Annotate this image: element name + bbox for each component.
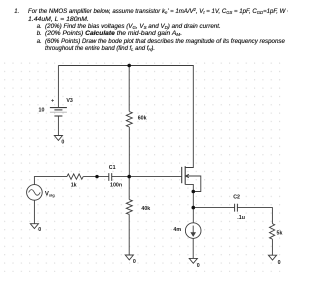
svg-text:4m: 4m [173, 227, 181, 233]
svg-text:10: 10 [39, 107, 45, 113]
svg-text:0: 0 [133, 259, 136, 265]
svg-text:V3: V3 [66, 98, 73, 104]
svg-text:5k: 5k [277, 230, 283, 236]
svg-text:0: 0 [197, 263, 200, 269]
svg-text:40k: 40k [141, 206, 150, 212]
svg-text:sig: sig [49, 192, 55, 197]
svg-text:0: 0 [278, 260, 281, 266]
svg-text:0: 0 [61, 139, 64, 145]
svg-text:100n: 100n [110, 183, 122, 189]
svg-text:.1u: .1u [237, 215, 245, 221]
svg-text:C1: C1 [109, 165, 116, 171]
svg-text:C2: C2 [233, 194, 240, 200]
svg-text:60k: 60k [138, 115, 147, 121]
svg-text:1k: 1k [71, 183, 77, 189]
svg-text:0: 0 [38, 227, 41, 233]
